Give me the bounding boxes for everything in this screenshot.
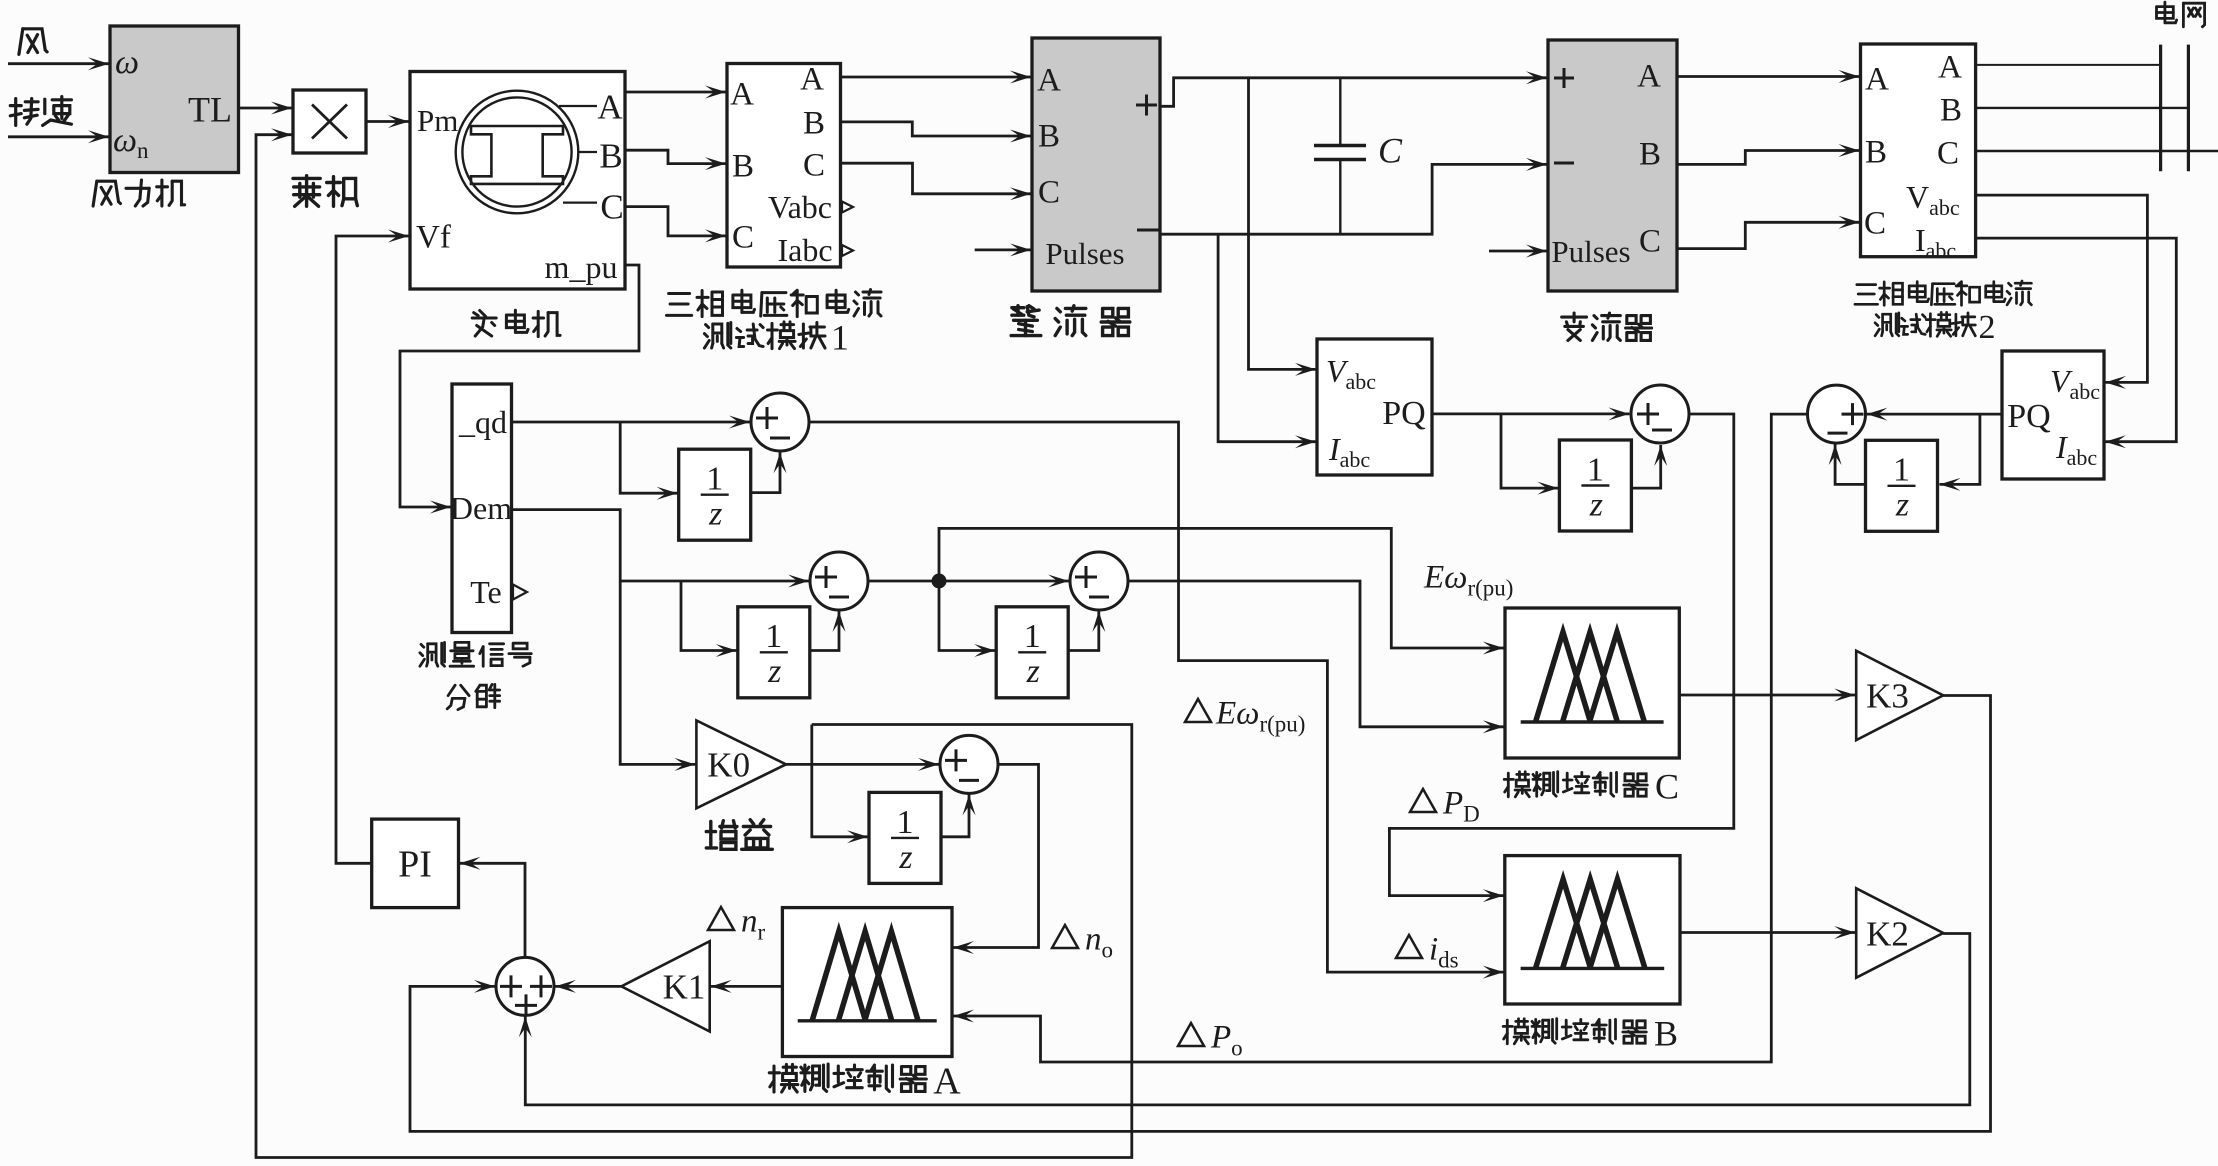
svg-text:A: A — [1037, 63, 1061, 99]
svg-text:C: C — [803, 148, 825, 184]
wire: branch down into delay z2 — [681, 581, 737, 651]
svg-text:z: z — [767, 653, 781, 690]
wire: big feedback from gain K0 into product second input (left vertical) — [256, 135, 1132, 1158]
wire: module2 C to grid bus — [1976, 150, 2218, 152]
svg-text:ω: ω — [115, 44, 139, 81]
svg-text:z: z — [1895, 487, 1909, 524]
gain K3 — [1856, 651, 1943, 740]
wire: generator phase B to test module 1 — [625, 150, 726, 163]
wire: _qd branch down into delay z1 — [620, 422, 678, 493]
wire: sum1 output down around as Delta i_ds into fuzzy controller B second input — [809, 422, 1504, 972]
delay block 1/z #1 — [679, 449, 751, 540]
label three-phase voltage and current 2 (Chinese) line1 — [1855, 281, 2032, 305]
svg-text:Te: Te — [470, 574, 502, 610]
block: three-phase V/I test module 1 — [727, 64, 841, 268]
block: measurement signal decomposition — [452, 384, 512, 633]
wire: DC positive rail from rectifier to converter — [1160, 78, 1547, 107]
delay block 1/z #2 — [738, 607, 810, 698]
wire: PQ2 output left into sum6 — [1867, 413, 2003, 416]
block: product (multiply) — [293, 90, 366, 153]
svg-text:2: 2 — [1979, 309, 1996, 346]
block: rectifier (gray) — [1032, 38, 1160, 291]
delay block 1/z #4 — [869, 792, 941, 883]
wire: converter A to test module 2 — [1677, 75, 1860, 78]
label fuzzy controller B (Chinese) — [1503, 1019, 1646, 1044]
label three-phase voltage and current (Chinese) line1 — [667, 290, 882, 317]
sum junction S5 (three plus) — [496, 957, 554, 1015]
svg-text:A: A — [1637, 59, 1661, 95]
wire: generator m_pu output to decomposition Dem input — [400, 265, 639, 507]
wire: pulses stub into rectifier — [975, 248, 1031, 251]
label decomposition (Chinese) — [447, 684, 499, 709]
sum junction S3 — [1070, 552, 1128, 610]
wire: Dem output down to gain K0 input — [512, 510, 696, 765]
svg-text:C: C — [1655, 767, 1679, 807]
svg-text:B: B — [732, 149, 754, 185]
wire: PQ2 output branch down into delay z6 (enters from right) — [1940, 414, 1980, 484]
wire: PQ1 output branch down into delay z5 — [1501, 414, 1558, 488]
wire: _qd output of decomposition into sum1 — [512, 421, 751, 424]
sum junction S1 (qd) — [751, 393, 809, 451]
delay block 1/z #3 — [996, 607, 1068, 698]
wire: module1 A to rectifier A — [841, 76, 1032, 79]
svg-text:C: C — [1864, 206, 1886, 242]
block: PI controller — [372, 819, 459, 908]
generator rotor I-beam symbol — [471, 126, 563, 184]
svg-text:1: 1 — [831, 318, 849, 358]
wire: DC negative rail from rectifier to converter — [1160, 164, 1547, 234]
wire: z2 output up into sum2 minus input — [810, 611, 839, 651]
label product (Chinese) — [293, 176, 357, 207]
wire: product output to generator Pm input — [366, 120, 409, 123]
wire: module2 Iabc down to PQ2 Iabc input — [1976, 238, 2177, 442]
svg-text:1: 1 — [1024, 618, 1041, 655]
svg-text:C: C — [732, 220, 754, 256]
label power grid (Chinese) — [2157, 2, 2205, 27]
label wind input (Chinese) — [19, 29, 47, 55]
svg-text:m_pu: m_pu — [545, 249, 618, 285]
gain K0 — [696, 720, 786, 808]
svg-text:1: 1 — [706, 461, 723, 498]
svg-text:1: 1 — [1893, 452, 1910, 489]
wire: TL output of wind turbine to product block — [239, 107, 293, 110]
wire: sum2 output to junction dot and into sum3 — [868, 580, 1069, 583]
wire: converter B to test module 2 — [1677, 151, 1860, 165]
label Delta n o — [1052, 925, 1078, 948]
wire: PI output feedback up to generator Vf input — [336, 236, 409, 863]
wire: converter C to test module 2 — [1677, 222, 1860, 248]
svg-text:K1: K1 — [663, 968, 706, 1007]
label rotate speed input (Chinese) — [10, 97, 71, 126]
wire: Dem branch right into sum2 — [620, 580, 809, 583]
wire: DC+ rail tap down to PQ1 Vabc input — [1249, 78, 1317, 370]
svg-text:A: A — [1938, 50, 1962, 86]
block: wind turbine (gray) — [110, 26, 239, 173]
delay block 1/z #5 — [1559, 440, 1631, 531]
wire: generator phase A to test module 1 — [625, 91, 726, 94]
sum junction S6 — [1808, 385, 1866, 443]
gain K1 — [621, 941, 709, 1031]
wire: module2 Vabc down to PQ2 Vabc input — [1976, 195, 2148, 382]
svg-text:B: B — [599, 136, 622, 175]
wire: K1 output left into sum5 — [555, 985, 621, 988]
label converter (Chinese) — [1562, 313, 1652, 340]
wire: sum7 output down and left as DeltaPD into fuzzy controller B first input — [1389, 414, 1733, 896]
svg-text:z: z — [1589, 486, 1603, 523]
wire: K0 output into sum4 — [786, 763, 939, 766]
wire: fuzzy controller B output into gain K2 — [1680, 931, 1855, 934]
svg-text:PQ: PQ — [2007, 398, 2050, 435]
wire: z4 output up into sum4 minus input — [942, 794, 969, 836]
svg-text:1: 1 — [765, 618, 782, 655]
svg-text:B: B — [1639, 137, 1661, 173]
svg-text:C: C — [1639, 224, 1661, 260]
svg-text:Vf: Vf — [416, 220, 451, 256]
label gain (Chinese) — [706, 820, 772, 850]
svg-text:B: B — [1654, 1014, 1678, 1054]
wire: generator phase C to test module 1 — [625, 207, 726, 236]
svg-text:Pulses: Pulses — [1045, 236, 1124, 271]
wire: DC- rail tap down to PQ1 Iabc input — [1218, 234, 1316, 442]
label Delta P D — [1410, 789, 1436, 812]
gain K2 — [1856, 888, 1943, 977]
svg-text:B: B — [1940, 93, 1962, 129]
svg-text:A: A — [933, 1060, 961, 1102]
wire: fuzzy controller C output into gain K3 — [1679, 694, 1855, 697]
svg-text:_qd: _qd — [458, 404, 507, 440]
label test module 1 (Chinese) line2 — [704, 322, 825, 349]
grid bus bar 2 — [2187, 45, 2190, 172]
wire: z1 output up into sum1 minus input — [751, 452, 780, 492]
block: generator — [410, 72, 625, 290]
svg-text:Iabc: Iabc — [777, 232, 832, 268]
svg-text:C: C — [1937, 136, 1959, 172]
label Delta P o — [1178, 1023, 1204, 1046]
grid bus bar 1 — [2159, 45, 2162, 172]
svg-text:Pm: Pm — [417, 103, 458, 138]
wire: sum4 output down as Delta n_o into fuzzy controller A first input — [953, 764, 1039, 947]
svg-text:PI: PI — [398, 843, 432, 885]
label generator (Chinese) — [472, 310, 560, 336]
sum junction S2 — [810, 552, 868, 610]
svg-text:C: C — [600, 187, 623, 226]
wire: z5 output up into sum7 minus input — [1630, 445, 1660, 488]
svg-text:B: B — [803, 106, 825, 142]
generator machine symbol inner circle — [462, 97, 571, 206]
capacitor C on DC bus — [1339, 78, 1341, 145]
svg-text:1: 1 — [1587, 451, 1604, 488]
svg-text:B: B — [1865, 135, 1887, 171]
generator machine symbol outer circle — [456, 91, 579, 214]
label wind turbine (Chinese) — [93, 180, 185, 206]
svg-text:z: z — [1026, 653, 1040, 690]
fuzzy controller A block — [782, 908, 952, 1057]
wire: K2 output feedback down and left into sum5 bottom input — [525, 934, 1970, 1105]
svg-text:K2: K2 — [1866, 914, 1909, 953]
wire: rotor speed input into wind turbine — [8, 135, 109, 138]
block: PQ measurement 1 — [1317, 339, 1432, 475]
wire: junction up and right as E omega r(pu) into fuzzy controller C first input — [939, 528, 1504, 648]
delay block 1/z #6 — [1866, 440, 1938, 531]
label measurement signal (Chinese) — [420, 642, 531, 666]
wire: sum5 output up into PI controller — [460, 863, 526, 957]
wire: PQ1 output right into sum7 — [1432, 412, 1629, 415]
block: three-phase V/I test module 2 — [1861, 44, 1976, 257]
junction dot after sum2 — [932, 574, 947, 589]
fuzzy controller C block — [1505, 608, 1679, 758]
svg-text:z: z — [898, 839, 912, 876]
multiply cross symbol — [312, 105, 347, 139]
wire: junction down into delay z3 — [939, 581, 995, 651]
wire: sum6 output DeltaPo long feedback to fuzzy controller A second input — [953, 414, 1808, 1062]
sum junction S7 — [1631, 385, 1689, 443]
block: PQ measurement 2 — [2002, 351, 2104, 479]
svg-text:A: A — [800, 62, 824, 98]
svg-text:Pulses: Pulses — [1551, 234, 1630, 269]
svg-text:A: A — [597, 87, 623, 126]
svg-text:TL: TL — [188, 90, 232, 130]
label Delta i ds — [1396, 935, 1422, 958]
svg-text:C: C — [1378, 131, 1403, 171]
svg-text:A: A — [1865, 62, 1889, 98]
svg-text:K3: K3 — [1866, 677, 1909, 716]
svg-text:C: C — [1038, 175, 1060, 211]
wire: module2 A to grid bus — [1976, 64, 2161, 66]
wire: module1 C to rectifier C — [841, 163, 1032, 194]
wire: sum3 output down as Delta E omega into fuzzy controller C second input — [1128, 581, 1504, 727]
label Delta E omega r(pu) — [1185, 699, 1211, 722]
block: converter (gray) — [1548, 40, 1677, 291]
label test module 2 (Chinese) line2 — [1875, 312, 1975, 336]
generator pin A lead and label — [559, 105, 597, 107]
wire: z6 output up into sum6 minus input — [1835, 444, 1865, 484]
svg-text:A: A — [730, 77, 754, 113]
label fuzzy controller A (Chinese) — [769, 1064, 926, 1092]
label rectifier (Chinese) — [1011, 306, 1130, 336]
fuzzy controller B block — [1505, 856, 1680, 1004]
svg-text:1: 1 — [897, 804, 914, 841]
wire: module1 B to rectifier B — [841, 122, 1032, 136]
wire: module2 B to grid bus — [1976, 107, 2189, 109]
sum junction S4 — [940, 735, 998, 793]
wire: fuzzy controller A output left into gain K1 — [711, 985, 783, 988]
svg-text:z: z — [708, 496, 722, 533]
wire: wind speed input into wind turbine — [8, 62, 109, 65]
converter pin labels — [1554, 68, 1574, 88]
svg-text:Dem: Dem — [450, 490, 512, 526]
svg-text:B: B — [1038, 119, 1060, 155]
svg-text:K0: K0 — [707, 746, 750, 785]
svg-text:Vabc: Vabc — [768, 189, 832, 225]
wire: z3 output up into sum3 minus input — [1069, 611, 1099, 651]
wire: K0 output riser to bypass line over sum4 — [812, 725, 868, 837]
wire: pulses stub into converter — [1489, 250, 1547, 253]
label Delta n r — [708, 907, 734, 930]
label fuzzy controller C (Chinese) — [1504, 772, 1647, 797]
generator pin C lead and label — [563, 202, 597, 204]
svg-text:PQ: PQ — [1382, 395, 1425, 432]
wire: K3 output feedback down and left into sum5 left input — [410, 696, 1991, 1132]
generator pin B lead and label — [578, 151, 597, 153]
